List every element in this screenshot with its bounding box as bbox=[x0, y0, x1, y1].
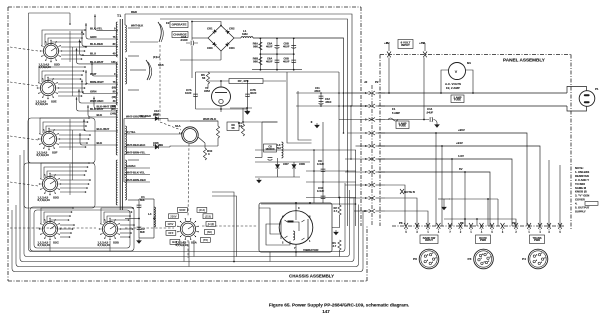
wire bbox=[376, 105, 386, 107]
svg-text:BLK: BLK bbox=[97, 113, 103, 117]
svg-text:S1A: S1A bbox=[175, 124, 181, 128]
wire bbox=[60, 191, 86, 193]
svg-text:SUPPLY: SUPPLY bbox=[575, 209, 586, 213]
wire bus to P1 bbox=[378, 92, 567, 94]
capacitor C8 1800UF bbox=[261, 122, 263, 158]
vibrator reed left bbox=[280, 219, 282, 239]
rotary switch S2C bbox=[39, 218, 61, 240]
wire bbox=[191, 21, 193, 40]
wire enclosure loop switches S2C S2B bbox=[30, 207, 134, 251]
mechanical linkage dashed bbox=[125, 227, 174, 229]
svg-text:S2B: S2B bbox=[113, 241, 120, 245]
svg-text:(50): (50) bbox=[112, 87, 116, 90]
mechanical linkage dashed bbox=[10, 136, 38, 140]
svg-text:BLU-WHT: BLU-WHT bbox=[97, 127, 110, 131]
wire bbox=[49, 130, 85, 133]
svg-text:PANEL ASSEMBLY: PANEL ASSEMBLY bbox=[503, 58, 546, 63]
transformer T1 winding 3 bbox=[116, 110, 117, 155]
ballast lamp S1A/L2 bbox=[182, 127, 198, 143]
switch S2A position BAT bbox=[170, 240, 180, 245]
wire bbox=[49, 241, 51, 252]
diode CR8 bbox=[292, 165, 296, 169]
svg-text:.05UF: .05UF bbox=[325, 101, 332, 104]
capacitors C11 C12 bbox=[320, 93, 322, 106]
svg-text:M1: M1 bbox=[467, 61, 471, 65]
wire bus bbox=[160, 19, 348, 140]
bottom connector contact 13 bbox=[538, 223, 542, 229]
svg-text:YEL-RED: YEL-RED bbox=[139, 114, 151, 118]
terminal row GRN 75 bbox=[86, 23, 118, 39]
svg-text:5. OUTPUT: 5. OUTPUT bbox=[575, 206, 590, 210]
label 6 VOLT INPUT bbox=[398, 40, 413, 49]
svg-text:VIBRATOR: VIBRATOR bbox=[303, 248, 319, 252]
wire bbox=[204, 143, 206, 148]
svg-text:WHT-BLK: WHT-BLK bbox=[203, 117, 217, 121]
wire bbox=[60, 236, 70, 238]
svg-text:40UF: 40UF bbox=[266, 60, 273, 64]
svg-text:BLK-WHT: BLK-WHT bbox=[97, 105, 110, 109]
wire bbox=[376, 197, 386, 199]
wire bbox=[61, 58, 82, 60]
transformer T1 secondary winding 2 bbox=[125, 58, 126, 84]
svg-text:(T6): (T6) bbox=[203, 238, 208, 242]
svg-text:3. "V" GEN: 3. "V" GEN bbox=[575, 194, 589, 198]
svg-text:OPERATE: OPERATE bbox=[172, 22, 187, 26]
wire 6.3VAC bbox=[124, 167, 150, 169]
svg-text:(F) YEL: (F) YEL bbox=[126, 130, 136, 134]
wire bbox=[212, 192, 234, 262]
terminal row WHT-RED 40 bbox=[79, 89, 118, 103]
svg-text:BAT: BAT bbox=[172, 240, 178, 244]
transformer T1 core bbox=[119, 19, 121, 210]
label OPERATE bbox=[170, 22, 188, 28]
wire bbox=[263, 80, 286, 82]
terminal row BLU 40 bbox=[80, 39, 119, 55]
bridge outline bbox=[208, 26, 234, 52]
mechanical linkage dashed bbox=[10, 82, 38, 86]
capacitor C7B bbox=[245, 94, 250, 97]
wire bbox=[50, 175, 85, 178]
capacitor C7A bbox=[193, 94, 198, 97]
svg-text:(S0): (S0) bbox=[207, 230, 212, 234]
svg-text:CR1: CR1 bbox=[207, 27, 213, 31]
capacitor C10 bbox=[321, 196, 326, 199]
terminal row BLK-WHT (30) bbox=[77, 97, 119, 111]
resistor R5 bbox=[206, 72, 209, 84]
svg-text:.04UF: .04UF bbox=[426, 111, 434, 115]
svg-text:S2E: S2E bbox=[51, 100, 57, 104]
wire tie bbox=[69, 119, 71, 150]
svg-text:BLK: BLK bbox=[97, 141, 103, 145]
wire enclosure loop switch S2F bbox=[28, 118, 95, 163]
connector contact pin 3 bbox=[369, 118, 375, 122]
svg-text:0.1UF: 0.1UF bbox=[317, 162, 325, 166]
wire bbox=[220, 81, 222, 87]
svg-text:OFF: OFF bbox=[168, 231, 174, 235]
wire rail right bbox=[247, 81, 249, 109]
svg-text:0.1UF: 0.1UF bbox=[317, 189, 325, 193]
svg-text:(40): (40) bbox=[112, 96, 116, 99]
svg-text:10UF: 10UF bbox=[185, 91, 192, 95]
wire bbox=[47, 171, 86, 178]
svg-text:1.5V: 1.5V bbox=[458, 154, 464, 158]
svg-text:40UF: 40UF bbox=[250, 91, 257, 95]
switch S2A contact (L10) bbox=[206, 222, 216, 227]
vibrator pins and internals bbox=[295, 202, 297, 204]
wire bbox=[60, 179, 90, 181]
wire bbox=[59, 138, 89, 140]
wire bbox=[41, 208, 73, 223]
chassis border left bbox=[7, 7, 9, 281]
wire bbox=[277, 158, 279, 164]
X mark bbox=[400, 189, 404, 194]
wire bbox=[48, 38, 82, 45]
svg-text:P6: P6 bbox=[413, 257, 417, 261]
wire bbox=[124, 14, 126, 25]
wire bbox=[60, 228, 73, 230]
svg-text:CR8: CR8 bbox=[299, 162, 305, 166]
svg-text:CR6: CR6 bbox=[153, 141, 159, 145]
svg-text:TO INDI: TO INDI bbox=[575, 182, 585, 186]
terminal row BLK-YEL 0 bbox=[95, 14, 118, 30]
svg-text:(F)L2: (F)L2 bbox=[153, 55, 160, 59]
svg-text:6.3VAC: 6.3VAC bbox=[126, 164, 135, 168]
svg-text:1MH: 1MH bbox=[242, 32, 248, 36]
wire bbox=[60, 183, 89, 185]
wire bbox=[339, 250, 341, 257]
svg-text:6,7,8,9,10: 6,7,8,9,10 bbox=[36, 102, 49, 106]
wire bbox=[423, 58, 425, 120]
vibrator coil bbox=[293, 231, 295, 240]
bottom connector contact 8 bbox=[480, 223, 484, 229]
bottom connector contact 9 bbox=[490, 223, 494, 229]
wire bbox=[188, 242, 190, 267]
wire 6V bbox=[378, 172, 490, 226]
svg-text:56K: 56K bbox=[253, 60, 258, 64]
wire vertical bbox=[355, 150, 357, 226]
chassis border bottom bbox=[8, 280, 367, 282]
connector contact pin 10 bbox=[369, 209, 375, 213]
terminal row GRN 90 bbox=[82, 80, 118, 94]
svg-text:WHT-BRN-YEL: WHT-BRN-YEL bbox=[126, 151, 146, 155]
wire bbox=[130, 41, 158, 43]
switch S1B section 1 arc bbox=[158, 22, 161, 42]
wire WHT-BRN-YEL bbox=[124, 154, 150, 156]
wire bbox=[192, 37, 208, 39]
svg-text:J2: J2 bbox=[364, 80, 368, 84]
wire bbox=[107, 216, 130, 223]
switch S2A contact (J15) bbox=[203, 214, 213, 219]
wire WHT-RED-BLK bbox=[124, 146, 152, 148]
bottom connector contact 1 bbox=[404, 223, 408, 229]
wire horizontal bbox=[306, 181, 356, 183]
svg-text:130: 130 bbox=[111, 60, 116, 64]
svg-text:WHT-RED: WHT-RED bbox=[90, 99, 103, 103]
fuse F1 box bbox=[396, 121, 409, 129]
wire WHT-BLK-YEL bbox=[124, 174, 150, 176]
svg-text:F1: F1 bbox=[392, 107, 396, 111]
terminal row BLK-RED 80 bbox=[82, 30, 118, 46]
svg-text:NOTE:: NOTE: bbox=[575, 166, 584, 170]
vibrator outer loop left bbox=[266, 224, 290, 245]
label CHARGE bbox=[172, 32, 188, 38]
wire bbox=[198, 137, 205, 143]
rotary switch S2D bbox=[40, 40, 62, 62]
terminal row BLU-WHT bbox=[84, 119, 118, 131]
wire bbox=[29, 12, 71, 14]
resistor R8 bbox=[216, 126, 219, 138]
wire bbox=[50, 220, 69, 223]
switch S2A contact (J14) bbox=[197, 208, 207, 213]
svg-text:L4: L4 bbox=[148, 212, 152, 216]
svg-text:.01UF: .01UF bbox=[180, 38, 188, 42]
svg-text:CR7: CR7 bbox=[283, 162, 289, 166]
svg-text:6,7,8,9,10: 6,7,8,9,10 bbox=[38, 243, 51, 247]
svg-text:S2D: S2D bbox=[54, 63, 61, 67]
wire +90V bbox=[378, 133, 527, 226]
wire vertical bbox=[347, 140, 349, 226]
wire bottom bus bundle bbox=[29, 13, 346, 252]
connector contact pin 4 bbox=[369, 131, 375, 135]
wire to J2 pin 1 bbox=[296, 92, 369, 94]
terminal row BLU-WHT 130 bbox=[77, 48, 119, 64]
bottom connector dash-dot line bbox=[392, 225, 565, 227]
svg-text:S2G: S2G bbox=[53, 196, 60, 200]
svg-text:(J15): (J15) bbox=[205, 215, 211, 219]
wire bbox=[207, 84, 209, 88]
bottom connector contact 6 bbox=[459, 223, 463, 229]
connector P4 bbox=[528, 249, 548, 269]
vibrator G1 bbox=[259, 203, 332, 252]
wire horizontal bbox=[261, 203, 356, 205]
wire bbox=[58, 83, 86, 85]
wire tie bbox=[69, 31, 71, 62]
wire bbox=[193, 240, 195, 257]
switch S1B section 2 arc bbox=[146, 60, 150, 80]
svg-text:RED: RED bbox=[131, 10, 137, 14]
wire bus bbox=[196, 71, 340, 73]
svg-text:P3: P3 bbox=[460, 221, 464, 225]
wire bbox=[46, 126, 86, 133]
wire bbox=[130, 69, 146, 71]
transformer T1 secondary winding 4 bbox=[125, 160, 126, 200]
vibrator contacts right bbox=[307, 219, 309, 239]
wire (F) YEL bbox=[124, 133, 182, 135]
wire B+ bus bbox=[253, 38, 344, 133]
wire rail left bbox=[195, 72, 197, 109]
wire bbox=[191, 46, 193, 78]
svg-text:PWR: PWR bbox=[480, 238, 486, 242]
svg-text:2. X AND Y: 2. X AND Y bbox=[575, 178, 589, 182]
wire stub bbox=[128, 159, 139, 161]
svg-text:T1: T1 bbox=[117, 14, 121, 18]
svg-text:P4: P4 bbox=[512, 221, 516, 225]
mechanical linkage dashed bbox=[38, 227, 96, 229]
wire bbox=[180, 59, 221, 61]
wire bbox=[255, 176, 300, 178]
wire bbox=[376, 171, 386, 173]
wire bbox=[152, 146, 170, 148]
svg-text:40UF: 40UF bbox=[266, 45, 273, 49]
mechanical linkage S1A to S2A bbox=[188, 144, 189, 217]
label BAND SW INPUT bbox=[420, 235, 438, 244]
wire bbox=[58, 91, 83, 93]
wire bbox=[58, 95, 82, 97]
capacitor C1, inductor L4, capacitor C2 bbox=[139, 199, 154, 238]
svg-text:BLK-RED: BLK-RED bbox=[90, 42, 103, 46]
terminal row WHT 0 bbox=[92, 62, 118, 76]
wire bbox=[45, 34, 84, 45]
svg-text:S2A: S2A bbox=[191, 241, 198, 245]
wire horizontal bbox=[255, 149, 356, 151]
wire grid right-middle bbox=[287, 72, 312, 143]
svg-text:GRN: GRN bbox=[90, 35, 96, 39]
svg-text:4.: 4. bbox=[575, 202, 578, 206]
wire bbox=[339, 198, 341, 206]
rotary switch S2E bbox=[37, 77, 59, 99]
wire tie bbox=[69, 164, 71, 195]
wire bbox=[230, 107, 252, 109]
svg-text:(L10): (L10) bbox=[208, 222, 215, 226]
svg-text:4.7: 4.7 bbox=[334, 209, 338, 213]
svg-text:FUSE: FUSE bbox=[454, 98, 461, 102]
rotary switch S2F bbox=[38, 128, 60, 150]
ground bbox=[137, 239, 141, 244]
wire bbox=[190, 121, 218, 126]
terminal row BRN-WHT 75 bbox=[86, 70, 118, 84]
wire bbox=[43, 122, 88, 133]
wire tie bbox=[72, 47, 74, 96]
bottom connector contact 4 bbox=[437, 223, 441, 229]
ground bbox=[245, 109, 249, 114]
wire bbox=[269, 252, 271, 262]
svg-text:(J14): (J14) bbox=[199, 208, 205, 212]
fuse F2 label bbox=[451, 95, 464, 103]
wire bbox=[332, 215, 340, 228]
wire +94V bbox=[378, 146, 540, 226]
chassis border right bbox=[360, 7, 362, 226]
svg-text:CR3: CR3 bbox=[207, 46, 213, 50]
wire bbox=[120, 236, 130, 238]
wire bbox=[262, 121, 278, 123]
wire rail bbox=[293, 38, 295, 69]
wire vertical bbox=[322, 122, 324, 203]
svg-text:GRN: GRN bbox=[90, 90, 96, 94]
bottom connector contact 12 bbox=[527, 223, 531, 229]
wire enclosure loop switch S2G bbox=[24, 163, 95, 208]
rotary switch S2A bbox=[177, 218, 199, 240]
inductor L3 bbox=[282, 142, 284, 158]
bottom connector contact 15 bbox=[558, 223, 562, 229]
resistor R10 bbox=[203, 148, 206, 160]
wire bbox=[120, 224, 134, 226]
wire bbox=[376, 184, 386, 186]
connector contact pin 6 bbox=[369, 157, 375, 161]
connector P1 bbox=[567, 87, 587, 94]
interconnect wires right side bbox=[385, 119, 429, 121]
mechanical linkage right of S2A bbox=[202, 225, 257, 227]
wire bbox=[234, 37, 241, 39]
svg-text:COVER: COVER bbox=[575, 198, 585, 202]
svg-text:6UF: 6UF bbox=[140, 230, 145, 234]
wire bbox=[125, 218, 139, 220]
svg-text:56: 56 bbox=[202, 76, 206, 80]
wire bbox=[60, 187, 87, 189]
connector P3 bbox=[474, 249, 494, 269]
svg-text:CHASSIS ASSEMBLY: CHASSIS ASSEMBLY bbox=[289, 274, 334, 279]
svg-text:WHT-RED-BLK: WHT-RED-BLK bbox=[126, 143, 145, 147]
wire to J2 pin 2 bbox=[296, 105, 369, 107]
switch S2A position NOR bbox=[178, 208, 188, 213]
bottom connector contact 10 bbox=[501, 223, 505, 229]
svg-text:S2F: S2F bbox=[52, 151, 58, 155]
wire bbox=[376, 145, 386, 147]
bottom connector contact 11 bbox=[514, 223, 518, 229]
svg-text:L2: L2 bbox=[179, 131, 183, 135]
wire winding tap bus bbox=[123, 119, 125, 183]
wire bbox=[242, 108, 244, 124]
svg-text:6V: 6V bbox=[459, 167, 463, 171]
switch S2A position OFF bbox=[166, 231, 176, 236]
wire bbox=[58, 87, 85, 89]
svg-text:S1B: S1B bbox=[158, 63, 164, 67]
svg-text:.05UF: .05UF bbox=[314, 90, 321, 93]
wire bbox=[60, 232, 71, 234]
inductor L1 bbox=[241, 37, 253, 38]
wire rail bbox=[259, 38, 261, 69]
mechanical linkage dashed bbox=[10, 182, 38, 186]
svg-text:+94V: +94V bbox=[456, 141, 463, 145]
wire bbox=[255, 161, 310, 163]
svg-text:P4: P4 bbox=[522, 257, 526, 261]
wire bbox=[59, 134, 90, 136]
svg-text:6UF: 6UF bbox=[140, 198, 145, 202]
svg-text:WHT-BRN-RED: WHT-BRN-RED bbox=[126, 178, 146, 182]
mechanical linkage dashed bbox=[10, 47, 38, 51]
svg-text:40UF: 40UF bbox=[283, 60, 290, 64]
wire bbox=[441, 70, 449, 93]
svg-text:(260): (260) bbox=[110, 106, 116, 109]
terminal row BLK-WHT bbox=[94, 97, 118, 109]
svg-text:CR5: CR5 bbox=[153, 113, 159, 117]
switch S2A position 115V bbox=[166, 222, 176, 227]
wire stub bbox=[128, 89, 139, 91]
wire bbox=[476, 219, 478, 226]
bottom connector contact 3 bbox=[426, 223, 430, 229]
svg-text:5H: 5H bbox=[277, 146, 281, 150]
wire vibrator bottom pin bbox=[295, 244, 297, 256]
mechanical linkage below S2A bbox=[187, 240, 189, 258]
svg-text:KNOB (B: KNOB (B bbox=[575, 190, 587, 194]
svg-text:BLK-YEL: BLK-YEL bbox=[90, 26, 103, 30]
svg-text:WHT-BLK-YEL: WHT-BLK-YEL bbox=[126, 171, 145, 175]
wire bbox=[376, 158, 386, 160]
svg-text:RESISTAN: RESISTAN bbox=[575, 174, 589, 178]
ground bbox=[442, 205, 446, 210]
svg-text:CR2: CR2 bbox=[229, 27, 235, 31]
svg-text:P2: P2 bbox=[375, 80, 379, 84]
inductor L4 bbox=[154, 207, 155, 227]
wire bbox=[449, 198, 498, 200]
wire WHT-ORG-RED bbox=[124, 118, 152, 120]
resistor R6A bbox=[259, 42, 262, 50]
resistor R6B bbox=[259, 57, 262, 65]
connector contact pin 1 bbox=[369, 91, 375, 95]
chassis border top bbox=[8, 6, 361, 8]
wire bbox=[40, 118, 89, 133]
bottom connector contact 5 bbox=[448, 223, 452, 229]
wire 1.5V bbox=[378, 159, 512, 226]
